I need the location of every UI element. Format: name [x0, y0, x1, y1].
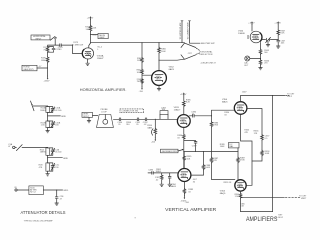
- wire vertical output bus to CRT: [241, 95, 285, 97]
- resistor R395 plate load: [183, 99, 192, 107]
- node junction lower branch: [158, 60, 159, 61]
- wire CRT lower lead: [241, 197, 285, 199]
- node junction X100: [56, 189, 57, 190]
- svg-text:GRID: GRID: [63, 158, 69, 160]
- svg-text:ATTENUATOR DETAILS: ATTENUATOR DETAILS: [21, 210, 66, 215]
- wire V344 plate: [251, 25, 253, 31]
- connector chain B input: [8, 143, 47, 151]
- wire riser to lower beam supply: [189, 21, 201, 43]
- ground cathode V362: [157, 89, 161, 91]
- resistor R385 plate V384: [183, 156, 192, 161]
- box horizontal input selector: [31, 35, 50, 40]
- wire divider column x211: [212, 116, 235, 180]
- svg-text:6AQ5: 6AQ5: [220, 192, 226, 195]
- node -150V gain pot: [151, 138, 156, 144]
- capacitor C391 20: [135, 118, 141, 126]
- svg-text:1.5K: 1.5K: [235, 196, 240, 198]
- wire plate V354 to output bus: [240, 96, 242, 102]
- svg-text:TO LOWER PLATE: TO LOWER PLATE: [187, 21, 190, 39]
- capacitor C171 parallel trimmer: [48, 47, 61, 53]
- tube V354 output amplifier: [234, 102, 247, 115]
- resistor R381 grid to ground: [156, 169, 164, 187]
- svg-text:1MEG: 1MEG: [156, 171, 162, 173]
- wire chain A mid node: [48, 112, 61, 121]
- node upper CRT deflection plate: [181, 43, 196, 48]
- svg-text:INPUT: INPUT: [35, 38, 42, 40]
- svg-text:100K: 100K: [220, 146, 225, 148]
- svg-text:R399 1K: R399 1K: [224, 182, 232, 184]
- svg-text:6AQ5: 6AQ5: [238, 185, 244, 188]
- svg-text:12AU7: 12AU7: [86, 53, 93, 56]
- resistor R383 cathode 1K: [183, 188, 194, 194]
- svg-text:R2 C2: R2 C2: [30, 192, 37, 194]
- box DC bal adjust: [229, 143, 240, 149]
- svg-text:12AU7: 12AU7: [181, 121, 188, 124]
- wire grid V384 input: [148, 172, 178, 174]
- resistor R1A with trimmer pair3: [40, 147, 63, 155]
- transformer T390 input shield can: [93, 109, 114, 127]
- wire grid V352: [73, 45, 83, 54]
- svg-text:1MEG: 1MEG: [40, 110, 46, 112]
- resistor R365 cathode: [235, 193, 242, 198]
- node -150V feed lower divider: [44, 76, 50, 83]
- svg-text:12AU7: 12AU7: [253, 37, 260, 40]
- svg-text:1W: 1W: [137, 81, 140, 83]
- ground chain A: [46, 131, 50, 133]
- ground chain B: [46, 174, 50, 176]
- svg-text:47-540: 47-540: [55, 152, 62, 154]
- wire chain B mid node: [48, 155, 63, 163]
- svg-text:8.2K: 8.2K: [186, 102, 191, 104]
- capacitor C390 20: [117, 118, 123, 126]
- tube V393 label: [174, 107, 181, 111]
- resistor R362 220K lower: [137, 69, 144, 74]
- ground X100: [55, 203, 59, 205]
- svg-text:DEFLECTION: DEFLECTION: [200, 54, 213, 56]
- wire cathode V384: [183, 182, 185, 196]
- wire gain box to divider: [37, 67, 48, 69]
- wire grid divider column V362: [142, 43, 152, 87]
- wire cathode V352 to ground: [87, 59, 89, 63]
- wire input box stub: [88, 117, 90, 120]
- resistor R10A with trimmer pair1: [40, 106, 62, 112]
- svg-text:100K: 100K: [137, 72, 142, 74]
- node junction plate bus at R366: [158, 42, 159, 43]
- box horizontal gain control: [22, 65, 37, 71]
- tube V362 horizontal output: [152, 71, 167, 86]
- capacitor C384 12: [191, 112, 197, 118]
- wire screen V354 to divider: [247, 109, 262, 162]
- node junction plate bus at R364: [141, 42, 142, 43]
- resistor R370 grid divider lower: [41, 57, 49, 63]
- node junction grid V384: [161, 172, 162, 173]
- node junction feedback at 203: [203, 151, 204, 152]
- wire output leader dashes: [286, 95, 290, 97]
- wire cathode V393 down: [183, 127, 185, 168]
- wire DC bal to V364 grid top: [237, 148, 239, 180]
- svg-text:8.2K: 8.2K: [280, 33, 285, 35]
- svg-text:6AU6: 6AU6: [238, 108, 244, 111]
- svg-text:6AU6: 6AU6: [171, 185, 177, 188]
- svg-text:-150V: -150V: [44, 81, 50, 83]
- wire deflection leader dashes: [196, 48, 199, 54]
- svg-text:270K: 270K: [213, 125, 218, 127]
- ground decoupling column: [276, 46, 280, 48]
- resistor R388 interstage: [202, 164, 211, 170]
- node cathode labels V364: [240, 203, 246, 207]
- svg-text:GAIN R375: GAIN R375: [23, 68, 34, 71]
- wire cathode V344 down: [260, 42, 262, 67]
- tube V364 label: [220, 191, 226, 195]
- svg-text:270K: 270K: [240, 160, 245, 162]
- node junction gain pot: [155, 119, 156, 120]
- svg-text:100K: 100K: [265, 153, 270, 155]
- resistor R357 divider upper: [261, 134, 271, 140]
- svg-text:6AK5: 6AK5: [156, 77, 162, 80]
- svg-text:100K: 100K: [161, 51, 166, 53]
- node junction chain A: [47, 115, 48, 116]
- node B167 junction dot: [90, 34, 91, 35]
- resistor R358 divider lower: [261, 150, 271, 156]
- capacitor C383 input: [148, 170, 154, 175]
- node grid leak label: [73, 42, 83, 46]
- tube V344 cal oscillator: [247, 31, 262, 43]
- wire cathode V362: [158, 85, 160, 88]
- wire plate V393: [183, 96, 185, 115]
- node junction feedback tap: [272, 95, 273, 96]
- node junction coupling column: [211, 115, 212, 116]
- tube V364 output cathode follower: [235, 180, 246, 191]
- capacitor C381 grid bypass: [155, 173, 172, 187]
- node junction chain B: [47, 157, 48, 158]
- svg-text:GRID: GRID: [63, 190, 69, 192]
- neon lamp box: [98, 33, 108, 39]
- ground cal divider: [259, 68, 263, 70]
- resistor R386 270K: [210, 122, 219, 128]
- svg-text:12AU6: 12AU6: [238, 32, 245, 35]
- tube label 1/2 12AU7: [97, 47, 104, 60]
- capacitor C392 .02: [143, 118, 149, 126]
- svg-text:HORIZONTAL AMPLIFIER.: HORIZONTAL AMPLIFIER.: [80, 88, 127, 92]
- connector J346 cal out jack: [244, 56, 250, 67]
- svg-text:150V: 150V: [242, 92, 247, 94]
- wire cathode V354 to V364 plate: [241, 114, 252, 185]
- resistor R360 100K upper: [137, 57, 143, 62]
- capacitor C345 trimmer cathode: [266, 37, 271, 46]
- node to CRT upper label: [287, 94, 295, 98]
- svg-text:TO UPPER PLATE: TO UPPER PLATE: [179, 22, 182, 40]
- svg-text:LAMP: LAMP: [99, 36, 105, 39]
- wire vertical input bus: [113, 118, 177, 120]
- svg-text:100K: 100K: [137, 60, 142, 62]
- node DC bal labels: [220, 144, 226, 148]
- node to CRT vert label: [299, 195, 307, 199]
- resistor R347 8.2K: [277, 30, 286, 36]
- svg-text:6AU6: 6AU6: [181, 175, 187, 178]
- svg-text:6AK5: 6AK5: [169, 68, 175, 71]
- capacitor C370 3.3 coupling: [58, 44, 64, 51]
- potentiometer R394 vert gain: [147, 119, 156, 137]
- svg-text:SEE PWR SUP: SEE PWR SUP: [201, 43, 216, 45]
- node lower CRT deflection plate: [181, 55, 196, 60]
- tube V384 label: [171, 184, 177, 188]
- node grid stopper labels V354: [224, 112, 230, 116]
- wire probe input chain A: [31, 101, 48, 111]
- node +150V feed V344 plate: [248, 21, 255, 24]
- node junction at grid divider: [55, 45, 56, 46]
- wire CRT lower dashes: [285, 197, 299, 199]
- node probe dot: [31, 104, 32, 105]
- wire cathode feedback bus: [184, 151, 238, 153]
- resistor R393 peaking box: [160, 107, 168, 119]
- node +150V feed decoupling: [274, 21, 281, 24]
- svg-text:1.5K: 1.5K: [240, 206, 245, 208]
- box connector assembly dashed: [120, 109, 144, 113]
- tube V393 input amplifier: [177, 115, 190, 128]
- svg-text:47-540: 47-540: [55, 110, 62, 112]
- node key note: [276, 214, 284, 218]
- svg-text:GAIN: GAIN: [147, 126, 152, 129]
- node -150V feed divider: [139, 86, 144, 93]
- svg-text:GRID: GRID: [61, 116, 67, 118]
- svg-text:12AU7: 12AU7: [174, 108, 181, 111]
- wire plate V362: [158, 43, 160, 71]
- wire plate V352 up: [89, 43, 91, 48]
- resistor R171 grid divider upper: [43, 47, 49, 53]
- svg-text:TYPE 310 OSCILLOSCOPE AMP: TYPE 310 OSCILLOSCOPE AMP: [24, 219, 54, 222]
- svg-text:GEOM ADJ R397: GEOM ADJ R397: [162, 150, 179, 153]
- svg-text:100K: 100K: [205, 167, 210, 169]
- resistor R1B with trimmer pair4: [39, 163, 60, 171]
- ground input shield: [87, 121, 91, 123]
- capacitor C397 cathode bypass: [184, 141, 198, 152]
- svg-text:1MEG: 1MEG: [41, 60, 47, 62]
- svg-text:LOOP: LOOP: [101, 111, 107, 113]
- svg-text:+DELAY LINE 47: +DELAY LINE 47: [200, 61, 216, 64]
- wire chain B to ground: [47, 171, 49, 174]
- tube V344 label: [238, 30, 245, 34]
- connector X100 input: [14, 187, 29, 191]
- node junction cal divider: [260, 58, 261, 59]
- wire +150V to plate resistor: [90, 20, 92, 26]
- wire attenuator node drop: [48, 45, 56, 47]
- resistor R390 910 label: [126, 122, 132, 126]
- node +150V plate V393: [180, 92, 187, 95]
- tube V384 second vertical amp: [178, 169, 191, 182]
- node -150V cathode return: [180, 196, 186, 203]
- wire input coupling run: [55, 39, 72, 46]
- resistor R345 560: [259, 49, 270, 55]
- wire V352 plate bus to CRT: [91, 42, 185, 44]
- node cathode labels V354: [244, 130, 250, 134]
- tube V352A triode: [82, 48, 93, 59]
- wire resistor to node: [91, 32, 98, 44]
- wire decoupling column: [277, 25, 279, 46]
- node +150V plate supply for V352: [87, 16, 94, 20]
- ground cathode V352: [86, 63, 90, 65]
- node screen labels: [254, 131, 260, 135]
- box X100 attenuator: [29, 186, 43, 195]
- svg-text:+150V: +150V: [248, 23, 255, 25]
- wire cathode V344 right: [262, 39, 278, 41]
- svg-text:12AU7: 12AU7: [97, 57, 104, 60]
- wire chain A to ground: [47, 128, 49, 131]
- wire plate V384 to interstage: [191, 152, 204, 176]
- svg-text:VERT: VERT: [301, 198, 307, 200]
- resistor R316 56K plate load: [85, 25, 97, 31]
- svg-text:6AU6: 6AU6: [222, 101, 228, 104]
- resistor R366 plate load V362: [158, 47, 167, 53]
- svg-text:VERTICAL AMPLIFIER: VERTICAL AMPLIFIER: [165, 207, 217, 212]
- resistor R346 270: [259, 60, 270, 66]
- node horizontal deflection label: [200, 51, 214, 56]
- svg-text:1MEG: 1MEG: [40, 152, 46, 154]
- wire riser to upper beam supply: [181, 21, 183, 43]
- tube V362 designation label: [169, 67, 175, 71]
- wire feedback loop right side: [241, 96, 273, 212]
- wire cathode V364: [240, 191, 242, 193]
- node junction feedback at V384: [183, 151, 184, 152]
- resistor R396 cathode: [177, 134, 185, 140]
- svg-text:+150V: +150V: [274, 23, 281, 25]
- wire plate branch to V384 grid: [189, 110, 234, 116]
- capacitor C347 .005: [277, 40, 286, 44]
- node junction cathode bus: [278, 39, 279, 40]
- svg-text:AMPLIFIERS: AMPLIFIERS: [246, 216, 278, 223]
- resistor R387 47K: [210, 157, 219, 163]
- switch SW170 arm: [50, 36, 56, 40]
- svg-text:PIN 2: PIN 2: [287, 96, 293, 98]
- wire X100 output: [43, 189, 62, 191]
- capacitor C2E 47: [55, 190, 64, 203]
- wire lower deflection branch: [159, 59, 184, 60]
- svg-text:+150V: +150V: [180, 94, 187, 96]
- wire plate V384: [183, 152, 185, 169]
- node plate V384 label: [193, 179, 198, 183]
- svg-text:1 MEG 2W: 1 MEG 2W: [73, 44, 83, 46]
- box gain adj label: [161, 149, 184, 153]
- resistor R363 bias: [137, 78, 144, 83]
- box vertical input connector: [82, 112, 93, 117]
- resistor R369 grid V364: [237, 157, 246, 163]
- tube V354 label: [222, 99, 228, 104]
- wire divider chain: [47, 52, 49, 76]
- svg-text:CONNECTOR 390: CONNECTOR 390: [121, 111, 139, 113]
- svg-text:1.5K: 1.5K: [41, 125, 46, 127]
- wire cal out branch: [250, 58, 261, 60]
- resistor R10B with trimmer pair2: [41, 121, 61, 128]
